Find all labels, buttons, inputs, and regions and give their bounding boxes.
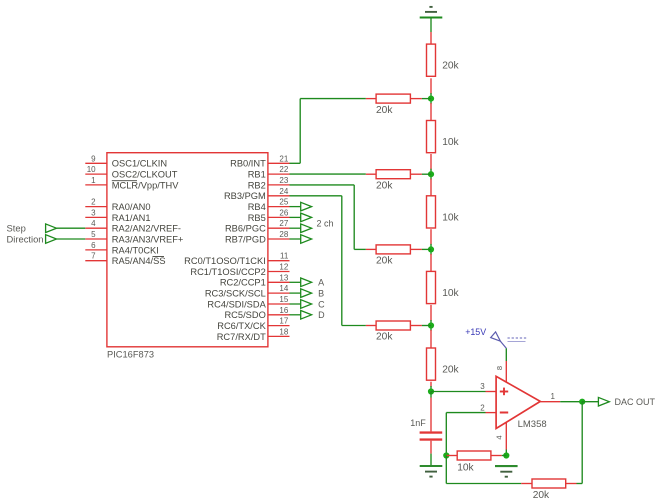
- svg-text:10k: 10k: [442, 137, 459, 148]
- svg-text:4: 4: [91, 219, 96, 228]
- svg-text:OSC1/CLKIN: OSC1/CLKIN: [112, 159, 167, 169]
- svg-text:B: B: [318, 289, 324, 299]
- svg-text:RA2/AN2/VREF-: RA2/AN2/VREF-: [112, 224, 181, 234]
- svg-text:RB1: RB1: [248, 170, 266, 180]
- svg-text:14: 14: [279, 284, 288, 293]
- svg-text:D: D: [318, 310, 325, 320]
- svg-text:10k: 10k: [442, 288, 459, 299]
- svg-text:10: 10: [87, 165, 96, 174]
- svg-text:RA0/AN0: RA0/AN0: [112, 202, 151, 212]
- svg-text:8: 8: [495, 366, 504, 370]
- svg-text:3: 3: [480, 382, 485, 391]
- svg-text:9: 9: [91, 154, 96, 163]
- svg-text:27: 27: [279, 219, 288, 228]
- svg-text:RB2: RB2: [248, 180, 266, 190]
- svg-text:28: 28: [279, 230, 288, 239]
- svg-text:12: 12: [279, 263, 288, 272]
- svg-text:7: 7: [91, 252, 96, 261]
- svg-text:C: C: [318, 299, 325, 309]
- svg-text:20k: 20k: [376, 105, 393, 116]
- svg-text:RC3/SCK/SCL: RC3/SCK/SCL: [205, 289, 266, 299]
- svg-text:2: 2: [480, 403, 485, 412]
- svg-text:A: A: [318, 278, 324, 288]
- svg-text:23: 23: [279, 176, 288, 185]
- svg-text:21: 21: [279, 154, 288, 163]
- svg-text:10k: 10k: [442, 212, 459, 223]
- svg-text:1: 1: [551, 392, 556, 401]
- svg-text:5: 5: [91, 230, 96, 239]
- svg-text:18: 18: [279, 327, 288, 336]
- svg-text:13: 13: [279, 273, 288, 282]
- svg-text:20k: 20k: [376, 256, 393, 267]
- svg-text:4: 4: [495, 436, 504, 440]
- svg-text:22: 22: [279, 165, 288, 174]
- svg-text:11: 11: [280, 252, 289, 261]
- svg-text:RC0/T1OSO/T1CKI: RC0/T1OSO/T1CKI: [184, 256, 266, 266]
- svg-text:RC7/RX/DT: RC7/RX/DT: [217, 332, 266, 342]
- svg-text:10k: 10k: [457, 463, 474, 474]
- svg-text:RB0/INT: RB0/INT: [230, 159, 266, 169]
- svg-text:RC5/SDO: RC5/SDO: [224, 310, 265, 320]
- svg-text:RA5/AN4/SS: RA5/AN4/SS: [112, 256, 166, 266]
- svg-text:+15V: +15V: [465, 327, 486, 337]
- svg-text:25: 25: [279, 198, 288, 207]
- svg-text:RB3/PGM: RB3/PGM: [224, 191, 266, 201]
- svg-text:Step: Step: [7, 223, 26, 234]
- svg-text:17: 17: [279, 317, 288, 326]
- svg-text:RC2/CCP1: RC2/CCP1: [220, 278, 266, 288]
- svg-text:RB5: RB5: [248, 213, 266, 223]
- svg-text:RC6/TX/CK: RC6/TX/CK: [217, 321, 266, 331]
- svg-text:15: 15: [279, 295, 288, 304]
- svg-text:MCLR/Vpp/THV: MCLR/Vpp/THV: [112, 180, 179, 190]
- svg-text:RB6/PGC: RB6/PGC: [225, 224, 266, 234]
- svg-text:RA1/AN1: RA1/AN1: [112, 213, 151, 223]
- svg-text:24: 24: [279, 187, 288, 196]
- svg-text:20k: 20k: [533, 490, 550, 501]
- svg-text:16: 16: [279, 306, 288, 315]
- svg-text:OSC2/CLKOUT: OSC2/CLKOUT: [112, 170, 178, 180]
- svg-text:20k: 20k: [376, 180, 393, 191]
- svg-text:PIC16F873: PIC16F873: [107, 349, 154, 359]
- svg-text:RA4/T0CKI: RA4/T0CKI: [112, 245, 159, 255]
- svg-text:RB7/PGD: RB7/PGD: [225, 234, 266, 244]
- svg-text:2 ch: 2 ch: [317, 219, 334, 229]
- svg-text:RB4: RB4: [248, 202, 266, 212]
- svg-text:LM358: LM358: [518, 419, 547, 430]
- svg-text:20k: 20k: [442, 365, 459, 376]
- svg-text:Direction: Direction: [7, 233, 44, 244]
- svg-text:RC4/SDI/SDA: RC4/SDI/SDA: [207, 299, 266, 309]
- svg-text:DAC OUT: DAC OUT: [615, 397, 656, 407]
- svg-text:6: 6: [91, 241, 96, 250]
- svg-text:1nF: 1nF: [410, 418, 426, 428]
- svg-text:3: 3: [91, 208, 96, 217]
- svg-text:RC1/T1OSI/CCP2: RC1/T1OSI/CCP2: [190, 267, 265, 277]
- svg-text:RA3/AN3/VREF+: RA3/AN3/VREF+: [112, 234, 184, 244]
- svg-text:26: 26: [279, 208, 288, 217]
- svg-text:20k: 20k: [376, 332, 393, 343]
- svg-text:20k: 20k: [442, 61, 459, 72]
- svg-text:2: 2: [91, 198, 96, 207]
- svg-text:1: 1: [91, 176, 96, 185]
